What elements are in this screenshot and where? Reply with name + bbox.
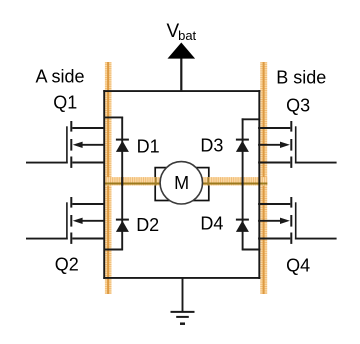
- motor wire highlight (orange): [105, 177, 267, 185]
- svg-text:D4: D4: [200, 214, 223, 234]
- motor brush rectangle: [155, 168, 209, 201]
- diode D4: [236, 177, 260, 250]
- svg-text:D3: D3: [200, 136, 223, 156]
- ground: [171, 278, 195, 324]
- svg-text:Q2: Q2: [55, 254, 79, 274]
- svg-text:B side: B side: [276, 68, 326, 88]
- left rail wire: [103, 90, 105, 279]
- transistor Q1: [26, 121, 105, 168]
- diode D2: [105, 177, 129, 250]
- svg-text:bat: bat: [178, 28, 196, 43]
- V_bat stem wire: [180, 58, 182, 93]
- svg-text:Q4: Q4: [286, 255, 310, 275]
- transistor Q3: [258, 121, 337, 168]
- top supply wire: [103, 90, 260, 92]
- motor M1 body: [160, 162, 202, 204]
- bottom ground wire: [103, 277, 260, 279]
- svg-text:Q1: Q1: [53, 92, 77, 112]
- B-side rail highlight (orange): [260, 62, 267, 294]
- right rail wire: [258, 90, 260, 279]
- diode D1: [105, 117, 129, 186]
- A-side rail highlight (orange): [105, 62, 112, 294]
- transistor Q4: [258, 197, 337, 244]
- transistor Q2: [26, 197, 105, 244]
- svg-text:D1: D1: [137, 137, 160, 157]
- V_bat arrow: [168, 43, 196, 59]
- svg-text:M: M: [174, 173, 189, 193]
- diode D3: [236, 118, 260, 185]
- svg-text:A side: A side: [35, 67, 84, 87]
- svg-text:Q3: Q3: [286, 95, 310, 115]
- svg-text:D2: D2: [136, 215, 159, 235]
